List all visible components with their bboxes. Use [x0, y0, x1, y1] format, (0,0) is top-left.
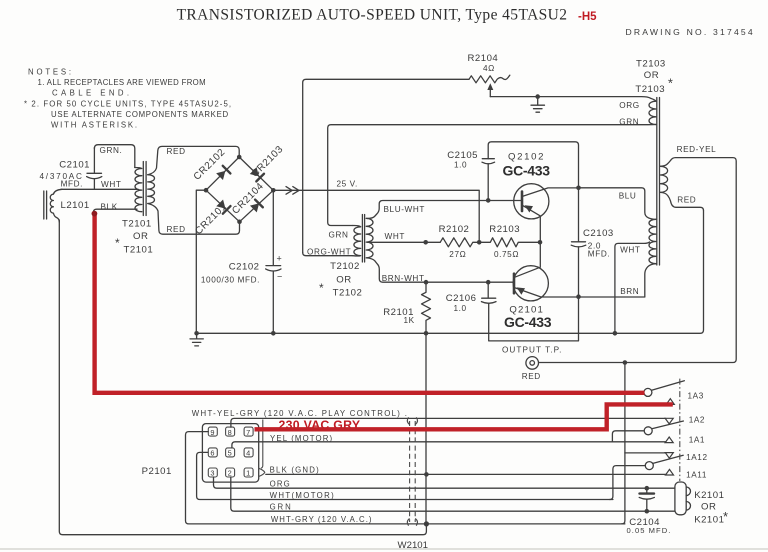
wire WHT center tap to rail: [615, 242, 650, 333]
svg-text:1A12: 1A12: [686, 453, 708, 462]
svg-text:ORG: ORG: [270, 480, 291, 489]
contact 1A12 fixed: [665, 453, 673, 459]
svg-text:1K: 1K: [404, 316, 415, 325]
resistor R2103: [479, 224, 540, 259]
svg-text:WHT-YEL-GRY (120 V.A.C. PLAY C: WHT-YEL-GRY (120 V.A.C. PLAY CONTROL) .: [192, 409, 408, 418]
transistor Q2102: [503, 152, 579, 243]
capacitor C2102: [201, 190, 283, 333]
svg-text:WHT(MOTOR): WHT(MOTOR): [270, 491, 335, 500]
wire BLK input: [93, 202, 137, 213]
svg-text:BLU: BLU: [619, 192, 637, 201]
wire BRN-WHT base line Q2101: [366, 258, 512, 283]
capacitor C2103: [571, 188, 614, 297]
node C2102 on rail: [271, 331, 276, 336]
actuator link dash-dot: [679, 379, 681, 481]
node R2102 R2103 junction: [477, 240, 482, 245]
svg-text:0.05 MFD.: 0.05 MFD.: [627, 526, 672, 535]
svg-text:RED: RED: [167, 147, 186, 156]
svg-text:C2101: C2101: [59, 159, 90, 170]
svg-text:C2106: C2106: [446, 293, 477, 304]
svg-text:*: *: [668, 76, 674, 91]
svg-text:* 2. FOR 50 CYCLE UNITS, TYPE: * 2. FOR 50 CYCLE UNITS, TYPE 45TASU2-5,: [24, 100, 232, 109]
svg-text:*: *: [723, 509, 729, 524]
svg-text:WHT: WHT: [620, 246, 640, 255]
node R2103 emitter junction: [538, 240, 543, 245]
node C2104 top: [645, 486, 650, 491]
svg-text:0.75Ω: 0.75Ω: [494, 250, 519, 259]
wire WHT-YEL-GRY play control: [192, 409, 666, 427]
transformer T2101: [115, 162, 155, 256]
svg-text:GRN: GRN: [329, 231, 349, 240]
wire RED T2101 bottom to bridge: [148, 204, 240, 235]
svg-text:NOTES:: NOTES:: [28, 68, 72, 77]
svg-text:CR2104: CR2104: [230, 181, 266, 217]
svg-text:ORG: ORG: [619, 101, 639, 110]
svg-text:GRN: GRN: [619, 118, 639, 127]
svg-text:27Ω: 27Ω: [449, 250, 466, 259]
svg-text:8: 8: [228, 428, 233, 437]
svg-text:25 V.: 25 V.: [337, 180, 358, 189]
svg-text:GC-433: GC-433: [504, 314, 552, 330]
svg-text:*: *: [115, 236, 120, 250]
svg-text:-H5: -H5: [578, 11, 597, 23]
svg-text:−: −: [277, 272, 283, 282]
svg-text:5: 5: [228, 449, 233, 458]
diode CR2104: [230, 181, 266, 217]
svg-text:R2104: R2104: [468, 53, 499, 64]
svg-text:BLU-WHT: BLU-WHT: [384, 205, 426, 214]
red annotation line A: [92, 211, 645, 393]
svg-text:OR: OR: [644, 70, 659, 81]
svg-text:6: 6: [210, 449, 215, 458]
wire WHT to R2102: [368, 232, 441, 242]
node bridge bottom: [237, 220, 242, 225]
node bridge left: [204, 188, 209, 193]
diode CR2103: [249, 144, 285, 182]
wire WHT-GRY 120VAC: [186, 432, 625, 524]
red annotation -H5: [578, 11, 597, 23]
capacitor C2101: [40, 148, 102, 189]
svg-text:K2101: K2101: [694, 490, 724, 501]
contact 1A1 fixed: [665, 435, 705, 444]
switch 1A3: [644, 381, 704, 401]
wire BLU collector to T2103: [579, 188, 657, 220]
transformer T2102: [319, 215, 373, 299]
capacitor C2106: [446, 282, 579, 341]
relay K2101: [675, 482, 729, 525]
svg-text:WHT: WHT: [385, 232, 405, 241]
cable W2101 dashed: [398, 417, 429, 551]
contact 1A2 fixed: [665, 418, 673, 424]
svg-text:OUTPUT T.P.: OUTPUT T.P.: [502, 345, 562, 354]
wire RED-YEL secondary top: [539, 145, 736, 363]
svg-text:C2103: C2103: [583, 228, 614, 239]
wire YEL motor: [232, 434, 666, 448]
svg-text:T2103: T2103: [636, 59, 666, 70]
svg-text:TRANSISTORIZED AUTO-SPEED UNIT: TRANSISTORIZED AUTO-SPEED UNIT, Type 45T…: [177, 7, 568, 24]
wire ORG-WHT to T2102: [303, 248, 353, 257]
svg-text:1A3: 1A3: [688, 391, 704, 400]
wire bottom return to L2101: [59, 220, 426, 535]
wire BRN to emitter: [620, 264, 656, 297]
svg-text:WHT: WHT: [101, 180, 121, 189]
connector P2101: [142, 420, 265, 483]
svg-text:RED: RED: [167, 225, 186, 234]
wire BLU-WHT base line Q2102: [366, 201, 520, 219]
inductor L2101: [44, 189, 90, 222]
wire bridge left to ground rail: [196, 190, 206, 333]
diode CR2102: [192, 147, 231, 183]
resistor R2101: [383, 282, 430, 333]
ground on rail: [190, 331, 203, 346]
red annotation 230 VAC GRY: [279, 418, 361, 432]
node WHT-GRY junction: [424, 521, 429, 526]
bridge rectifier frame: [206, 157, 273, 222]
node R2101 top: [424, 280, 429, 285]
ground at R2104: [531, 94, 545, 112]
svg-text:3: 3: [210, 469, 215, 478]
contact 1A11 fixed: [666, 469, 708, 479]
svg-text:Q2102: Q2102: [508, 152, 544, 163]
node Q2101 base junction: [486, 280, 491, 285]
svg-text:1000/30 MFD.: 1000/30 MFD.: [201, 276, 260, 285]
svg-text:CR2101: CR2101: [193, 201, 229, 237]
wire wiper to ground and ORG to T2103: [490, 97, 656, 110]
svg-text:DRAWING NO. 317454: DRAWING NO. 317454: [626, 27, 754, 37]
svg-text:C2102: C2102: [229, 262, 260, 273]
wire to 1A12 contact: [625, 452, 666, 454]
wire R2101 bottom to BLK and WHT-GRY: [425, 333, 427, 524]
switch 1A12: [610, 453, 708, 500]
svg-text:OR: OR: [336, 275, 351, 286]
wire GRN to T2101: [94, 145, 134, 168]
svg-text:BLK: BLK: [101, 202, 118, 211]
resistor R2104: [303, 53, 510, 253]
svg-text:YEL (MOTOR): YEL (MOTOR): [270, 434, 333, 443]
wire RED-YEL down to WHT-GRY: [622, 363, 625, 524]
wire ORG: [214, 477, 675, 489]
svg-text:9: 9: [210, 428, 215, 437]
svg-text:OR: OR: [701, 501, 716, 512]
red annotation line B: [255, 404, 673, 429]
title: [177, 7, 568, 24]
svg-text:*: *: [319, 281, 324, 295]
svg-text:P2101: P2101: [142, 466, 172, 477]
capacitor C2104: [627, 488, 672, 535]
node BLK junction: [424, 472, 429, 477]
svg-text:2: 2: [228, 469, 233, 478]
wire RED secondary bottom: [660, 192, 703, 210]
svg-text:L2101: L2101: [61, 200, 90, 211]
svg-text:CABLE END.: CABLE END.: [52, 89, 130, 98]
svg-text:RED: RED: [677, 196, 696, 205]
svg-text:ORG-WHT: ORG-WHT: [307, 248, 351, 257]
svg-text:BRN-WHT: BRN-WHT: [382, 274, 425, 283]
node R2101 on rail: [424, 331, 429, 336]
node Q2101 emitter junction: [576, 294, 581, 299]
svg-text:T2101: T2101: [124, 245, 154, 256]
wire ground rail: [196, 211, 703, 333]
node bridge top: [237, 155, 242, 160]
wire GRN: [231, 477, 675, 511]
node bridge right: [271, 188, 276, 193]
notes: [24, 68, 232, 130]
svg-text:T2103: T2103: [635, 84, 665, 95]
node Q2102 collector junction: [576, 186, 581, 191]
svg-text:GRN.: GRN.: [100, 146, 123, 155]
scan edge line: [0, 548, 768, 550]
node RED-YEL junction: [623, 360, 628, 365]
node WHT T2103 on rail: [613, 331, 618, 336]
svg-text:1. ALL RECEPTACLES ARE VIEWED: 1. ALL RECEPTACLES ARE VIEWED FROM: [38, 78, 207, 87]
wire BLK GND: [266, 465, 666, 474]
svg-text:MFD.: MFD.: [588, 250, 610, 259]
svg-text:1A2: 1A2: [689, 416, 705, 425]
svg-text:C2105: C2105: [447, 150, 478, 161]
transistor Q2101: [504, 242, 645, 329]
svg-text:WITH ASTERISK.: WITH ASTERISK.: [51, 121, 138, 130]
svg-text:K2101: K2101: [694, 514, 724, 525]
svg-text:1: 1: [246, 469, 251, 478]
svg-text:1.0: 1.0: [454, 304, 467, 313]
svg-text:R2102: R2102: [439, 224, 470, 235]
wire WHT motor: [197, 452, 613, 500]
svg-text:4: 4: [246, 449, 251, 458]
switch 1A2: [612, 416, 705, 442]
test point OUTPUT T.P.: [502, 345, 562, 381]
svg-text:BLK (GND): BLK (GND): [270, 465, 320, 474]
node C2104 bottom: [645, 509, 650, 514]
svg-text:7: 7: [246, 428, 251, 437]
svg-text:4Ω: 4Ω: [483, 64, 495, 73]
resistor R2102: [439, 224, 480, 259]
wire collector rail Q2102: [488, 142, 578, 188]
wire 25V output: [273, 180, 479, 243]
svg-text:USE ALTERNATE COMPONENTS MAR: USE ALTERNATE COMPONENTS MARKED: [51, 110, 229, 119]
svg-text:T2102: T2102: [330, 261, 360, 272]
svg-text:MFD.: MFD.: [61, 180, 83, 189]
svg-text:1A1: 1A1: [689, 435, 705, 444]
node Q2102 base junction: [486, 198, 491, 203]
svg-text:R2103: R2103: [489, 224, 520, 235]
svg-text:RED-YEL: RED-YEL: [677, 145, 717, 154]
svg-text:BRN: BRN: [620, 287, 639, 296]
svg-text:GC-433: GC-433: [503, 163, 551, 179]
svg-text:1.0: 1.0: [454, 161, 467, 170]
svg-text:1A11: 1A11: [686, 471, 707, 480]
svg-text:RED: RED: [522, 372, 541, 381]
contact 1A3 fixed: [666, 399, 674, 405]
wire RED T2101 top to bridge: [148, 146, 239, 174]
svg-text:T2101: T2101: [122, 219, 152, 230]
drawing number: [626, 27, 754, 37]
node WHT R2102 junction: [423, 240, 428, 245]
wire GRN rail T2102 to T2103: [328, 118, 656, 240]
svg-text:T2102: T2102: [333, 288, 363, 299]
diode CR2101: [193, 199, 230, 237]
capacitor C2105: [447, 150, 494, 201]
svg-text:CR2103: CR2103: [250, 144, 286, 180]
wire WHT input: [61, 180, 138, 189]
svg-text:WHT-GRY (120 V.A.C.): WHT-GRY (120 V.A.C.): [271, 515, 373, 524]
svg-text:GRN: GRN: [270, 502, 292, 511]
transformer T2103: [635, 59, 673, 266]
svg-text:+: +: [277, 254, 283, 264]
svg-text:OR: OR: [133, 231, 148, 242]
